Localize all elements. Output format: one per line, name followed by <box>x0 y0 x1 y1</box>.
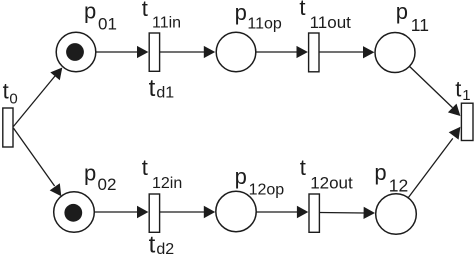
svg-text:p: p <box>84 160 96 185</box>
arc t0 to p01 <box>13 68 62 127</box>
svg-text:t: t <box>142 0 148 21</box>
transition t0 <box>3 108 13 147</box>
svg-text:p: p <box>396 0 408 24</box>
arc t12in to p12op <box>160 206 215 218</box>
svg-text:t: t <box>455 76 461 101</box>
arc p11op to t11out <box>256 46 308 58</box>
place p11op <box>216 32 256 72</box>
arc t12out to p12 <box>320 207 375 219</box>
arc p11 to t1 <box>410 66 461 116</box>
svg-text:12in: 12in <box>152 175 182 192</box>
svg-text:t: t <box>149 232 156 257</box>
svg-text:t: t <box>3 79 9 104</box>
svg-text:11op: 11op <box>247 15 282 32</box>
transition t12in <box>149 194 159 232</box>
arc t0 to p02 <box>13 128 61 196</box>
label td2 <box>149 232 175 259</box>
label t12out <box>300 155 353 193</box>
svg-text:1: 1 <box>462 87 470 104</box>
place p01 <box>56 32 96 72</box>
transition t11in <box>149 33 159 71</box>
svg-text:p: p <box>84 0 96 24</box>
label t0 <box>3 79 18 108</box>
transition t1 <box>461 103 473 140</box>
svg-text:12out: 12out <box>310 174 353 193</box>
label p11 <box>396 0 429 35</box>
svg-text:01: 01 <box>98 14 117 33</box>
svg-text:t: t <box>299 0 305 20</box>
arc p01 to t11in <box>96 46 148 58</box>
label p02 <box>84 160 116 194</box>
arc p12 to t1 <box>408 127 460 198</box>
svg-text:d2: d2 <box>156 241 174 257</box>
arc t11in to p11op <box>160 46 215 58</box>
place p12 <box>376 194 417 235</box>
svg-text:12: 12 <box>389 175 408 195</box>
label p01 <box>84 0 117 33</box>
label td1 <box>149 75 175 102</box>
svg-text:t: t <box>300 155 306 180</box>
svg-text:p: p <box>235 0 247 25</box>
token in p01 <box>66 43 84 61</box>
transition t11out <box>309 33 319 72</box>
label p12 <box>374 160 408 195</box>
arc p02 to t12in <box>95 206 149 218</box>
label p11op <box>235 0 282 32</box>
label t11out <box>299 0 351 32</box>
token in p02 <box>64 204 82 222</box>
place p12op <box>216 191 256 231</box>
svg-text:11: 11 <box>411 15 429 35</box>
transition t12out <box>309 194 319 232</box>
label p12op <box>235 164 285 198</box>
svg-text:12op: 12op <box>249 181 285 198</box>
svg-text:t: t <box>149 75 156 102</box>
svg-text:t: t <box>142 155 148 180</box>
svg-text:11in: 11in <box>152 15 181 32</box>
svg-text:0: 0 <box>9 90 17 107</box>
place p11 <box>375 33 415 73</box>
svg-text:02: 02 <box>98 175 117 194</box>
label t12in <box>142 155 182 192</box>
svg-text:11out: 11out <box>310 13 352 32</box>
label t11in <box>142 0 181 32</box>
label t1 <box>455 76 470 104</box>
arc t11out to p11 <box>319 46 374 58</box>
place p02 <box>54 192 95 233</box>
svg-text:p: p <box>235 164 247 189</box>
svg-text:p: p <box>374 160 386 185</box>
arc p12op to t12out <box>256 206 308 218</box>
svg-text:d1: d1 <box>156 84 174 101</box>
